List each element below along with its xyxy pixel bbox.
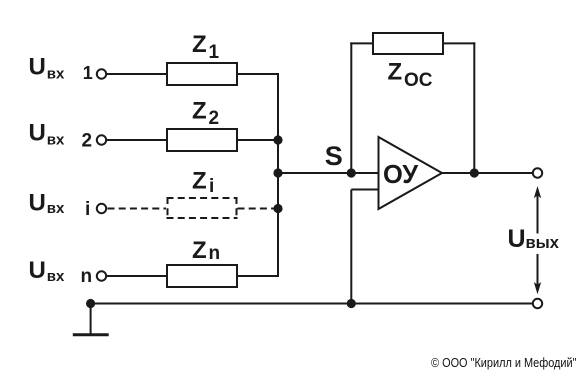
svg-text:Z: Z <box>192 31 207 58</box>
ground lead vertical <box>90 304 92 334</box>
svg-text:вых: вых <box>526 234 560 252</box>
terminal input 1 <box>97 69 106 78</box>
svg-text:i: i <box>85 199 90 220</box>
ground bar <box>73 333 109 336</box>
svg-text:U: U <box>29 190 46 217</box>
wire node S to op-amp inverting input <box>278 172 379 174</box>
svg-text:n: n <box>209 243 221 264</box>
wire Zoc left lead <box>350 42 373 44</box>
svg-text:1: 1 <box>83 63 93 83</box>
svg-text:U: U <box>508 225 526 253</box>
junction output feedback <box>470 168 479 177</box>
impedance Zn box <box>167 265 237 287</box>
terminal input i <box>97 204 106 213</box>
svg-text:Z: Z <box>192 98 207 125</box>
feedback impedance Zoc box <box>373 33 443 54</box>
svg-text:S: S <box>325 141 343 171</box>
svg-text:Z: Z <box>388 59 403 86</box>
svg-text:вх: вх <box>47 200 65 217</box>
arrow Uvyh down head <box>534 282 541 294</box>
wire bottom ground rail <box>91 303 534 305</box>
svg-text:Z: Z <box>192 168 207 195</box>
terminal input 2 <box>97 135 106 144</box>
wire op-amp output <box>442 172 533 174</box>
wire Zi to bus (dashed) <box>238 208 275 210</box>
wire feedback left vertical <box>350 42 352 173</box>
svg-text:i: i <box>209 176 214 197</box>
wire op-amp noninverting input horizontal <box>351 189 378 191</box>
svg-text:2: 2 <box>82 131 93 152</box>
wire summing bus vertical <box>277 73 279 277</box>
arrow Uvyh upper shaft <box>537 194 539 234</box>
impedance Zi box (dashed) <box>167 197 238 219</box>
junction bus node S wire <box>273 168 282 177</box>
svg-text:вх: вх <box>47 65 65 82</box>
svg-text:ОУ: ОУ <box>383 161 419 189</box>
svg-text:U: U <box>29 54 46 81</box>
junction bus row i <box>273 204 282 213</box>
svg-text:вх: вх <box>47 131 65 148</box>
wire input 2 to Z2 <box>107 139 168 141</box>
terminal output top <box>533 168 542 177</box>
impedance Z2 box <box>167 129 237 151</box>
svg-text:2: 2 <box>209 108 220 129</box>
junction rail noninverting branch <box>347 299 356 308</box>
terminal output bottom <box>533 299 542 308</box>
svg-text:вх: вх <box>47 268 65 285</box>
svg-text:n: n <box>81 266 93 287</box>
svg-text:Z: Z <box>192 237 207 264</box>
wire noninverting input to ground rail vertical <box>350 190 352 304</box>
wire input i to Zi (dashed) <box>108 208 167 210</box>
wire input n to Zn <box>107 275 168 277</box>
junction rail ground <box>86 299 95 308</box>
wire input 1 to Z1 <box>107 73 168 75</box>
svg-text:© ООО "Кирилл и Мефодий": © ООО "Кирилл и Мефодий" <box>431 356 577 370</box>
svg-text:U: U <box>29 257 46 284</box>
junction bus row2 <box>273 135 282 144</box>
wire Z2 to bus <box>237 139 280 141</box>
arrow Uvyh lower shaft <box>537 254 539 286</box>
svg-text:1: 1 <box>209 42 220 63</box>
wire Z1 to bus <box>237 73 280 75</box>
wire Zn to bus <box>237 275 280 277</box>
svg-text:U: U <box>29 120 46 147</box>
arrow Uvyh up head <box>534 186 541 198</box>
junction node S feedback tap <box>347 168 356 177</box>
wire Zoc right lead <box>443 42 475 44</box>
impedance Z1 box <box>167 63 237 85</box>
svg-text:ОС: ОС <box>404 70 433 91</box>
wire feedback right vertical <box>473 42 475 173</box>
terminal input n <box>97 271 106 280</box>
op-amp OU triangle <box>379 137 443 209</box>
